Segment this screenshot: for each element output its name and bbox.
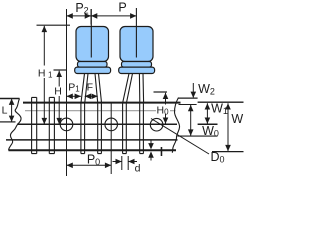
C1 crimp band [78,62,108,68]
sprocket hole 3 [150,118,163,131]
arrowhead P1 left [67,94,73,100]
arrowhead P0 left [67,163,73,169]
arrowhead H down [56,118,62,124]
C1 center line [90,9,92,58]
svg-text:P: P [118,1,126,15]
arrowhead L up [9,99,15,105]
C2 center line [135,8,137,58]
arrowhead H0 up [163,93,169,99]
d arrow tails [113,161,138,163]
d extension lines [122,156,128,170]
tape carrier top edge [23,102,181,104]
H0 top reference tick [154,91,168,93]
label H0 background [156,105,170,115]
arrowhead l up [148,151,154,157]
dimension P0 line [67,164,112,166]
H1 top reference line [37,24,71,26]
right stub hold-down top edge [179,104,197,106]
arrowhead W0 up [188,105,194,111]
left stub top edge [0,98,20,100]
dimension line P [91,15,136,17]
C1 lead 2 above tape [95,74,102,103]
C1 base disc [75,67,111,73]
C1 body [76,27,109,62]
sprocket hole 2 [105,118,118,131]
arrowhead W up [225,103,231,109]
svg-text:F: F [87,82,93,94]
sprocket hole center line [17,123,218,125]
capacitor C2 [119,8,155,103]
C2 base disc [119,67,155,73]
left torn edge wavy [9,99,22,151]
tape carrier bottom edge [9,149,177,151]
right torn edge wavy [172,98,179,153]
dimension L line [11,99,13,122]
right stub hold-down bottom edge (W0 reference) [178,135,218,137]
arrowhead d left (points right) [116,159,122,165]
svg-text:L: L [2,104,8,116]
arrowhead W2 down [191,92,197,98]
C2 lead 1 above tape [123,74,133,103]
arrowhead W0 down [188,129,194,135]
capacitor C1 lead 2 through tape [98,103,102,154]
extension line through hole 1 (P2 / P0 reference) [66,9,68,176]
C2 lead 2 above tape [139,74,143,103]
capacitor C2 lead 1 through tape [123,103,127,154]
arrowhead H1 down [42,118,48,124]
label H background [53,87,64,97]
l arrow tails [150,141,152,161]
arrowhead P1 right [75,94,81,100]
dimension W2 arrow line [192,83,194,97]
arrowhead P right [130,13,136,19]
dimension H line [58,71,60,125]
dimension W1 line [206,103,208,123]
hold-down tape bottom edge [6,139,178,141]
arrowhead W down [225,145,231,151]
D0 leader line [151,119,209,155]
capacitor C1 [75,9,111,103]
dimension F line [85,95,98,97]
arrowhead d right (points left) [128,159,134,165]
C2 crimp band [122,62,152,68]
arrowhead l down [148,143,154,149]
arrowhead H up [56,71,62,77]
H top reference tick [54,69,67,71]
off-frame capacitor lead 1 through tape [32,97,37,153]
hold-down tape top edge (grey) [25,110,176,112]
arrowhead P2 left [67,13,73,19]
dimension H0 line [165,93,167,124]
dimension P2 P ticks [90,9,92,25]
C1 lead 1 above tape [81,74,88,103]
left stub middle line [0,121,16,123]
capacitor C2 lead 2 through tape [140,103,144,154]
arrowhead W1 up [205,103,211,109]
dimension H1 line [43,26,45,124]
arrowhead W1 down [205,118,211,124]
svg-text:d: d [135,163,141,175]
carrier top edge extension right [198,101,244,103]
arrowhead L down [9,116,15,122]
extension line through hole 2 (P0 reference) [110,104,112,175]
dimension W line [227,103,229,151]
carrier bottom edge extension right [212,151,244,153]
dimension line P2 [67,15,92,17]
off-frame capacitor lead 2 through tape [49,97,54,153]
capacitor C1 lead 1 through tape [81,103,85,154]
arrowhead H0 down [163,118,169,124]
svg-text:l: l [160,147,163,159]
arrowhead P left [91,13,97,19]
dimension W0 line [190,105,192,136]
arrowhead F left [85,94,91,100]
C2 body [120,27,153,62]
dimension P1 line [67,95,81,97]
right stub (back tape) top edge [178,97,198,99]
arrowhead F right [91,94,97,100]
arrowhead P2 right [85,13,91,19]
label H1 background [37,66,54,79]
sprocket hole 1 [60,118,73,131]
svg-text:H: H [54,86,62,98]
arrowhead P0 right [105,163,111,169]
svg-text:W: W [231,112,243,126]
arrowhead H1 up [42,26,48,32]
